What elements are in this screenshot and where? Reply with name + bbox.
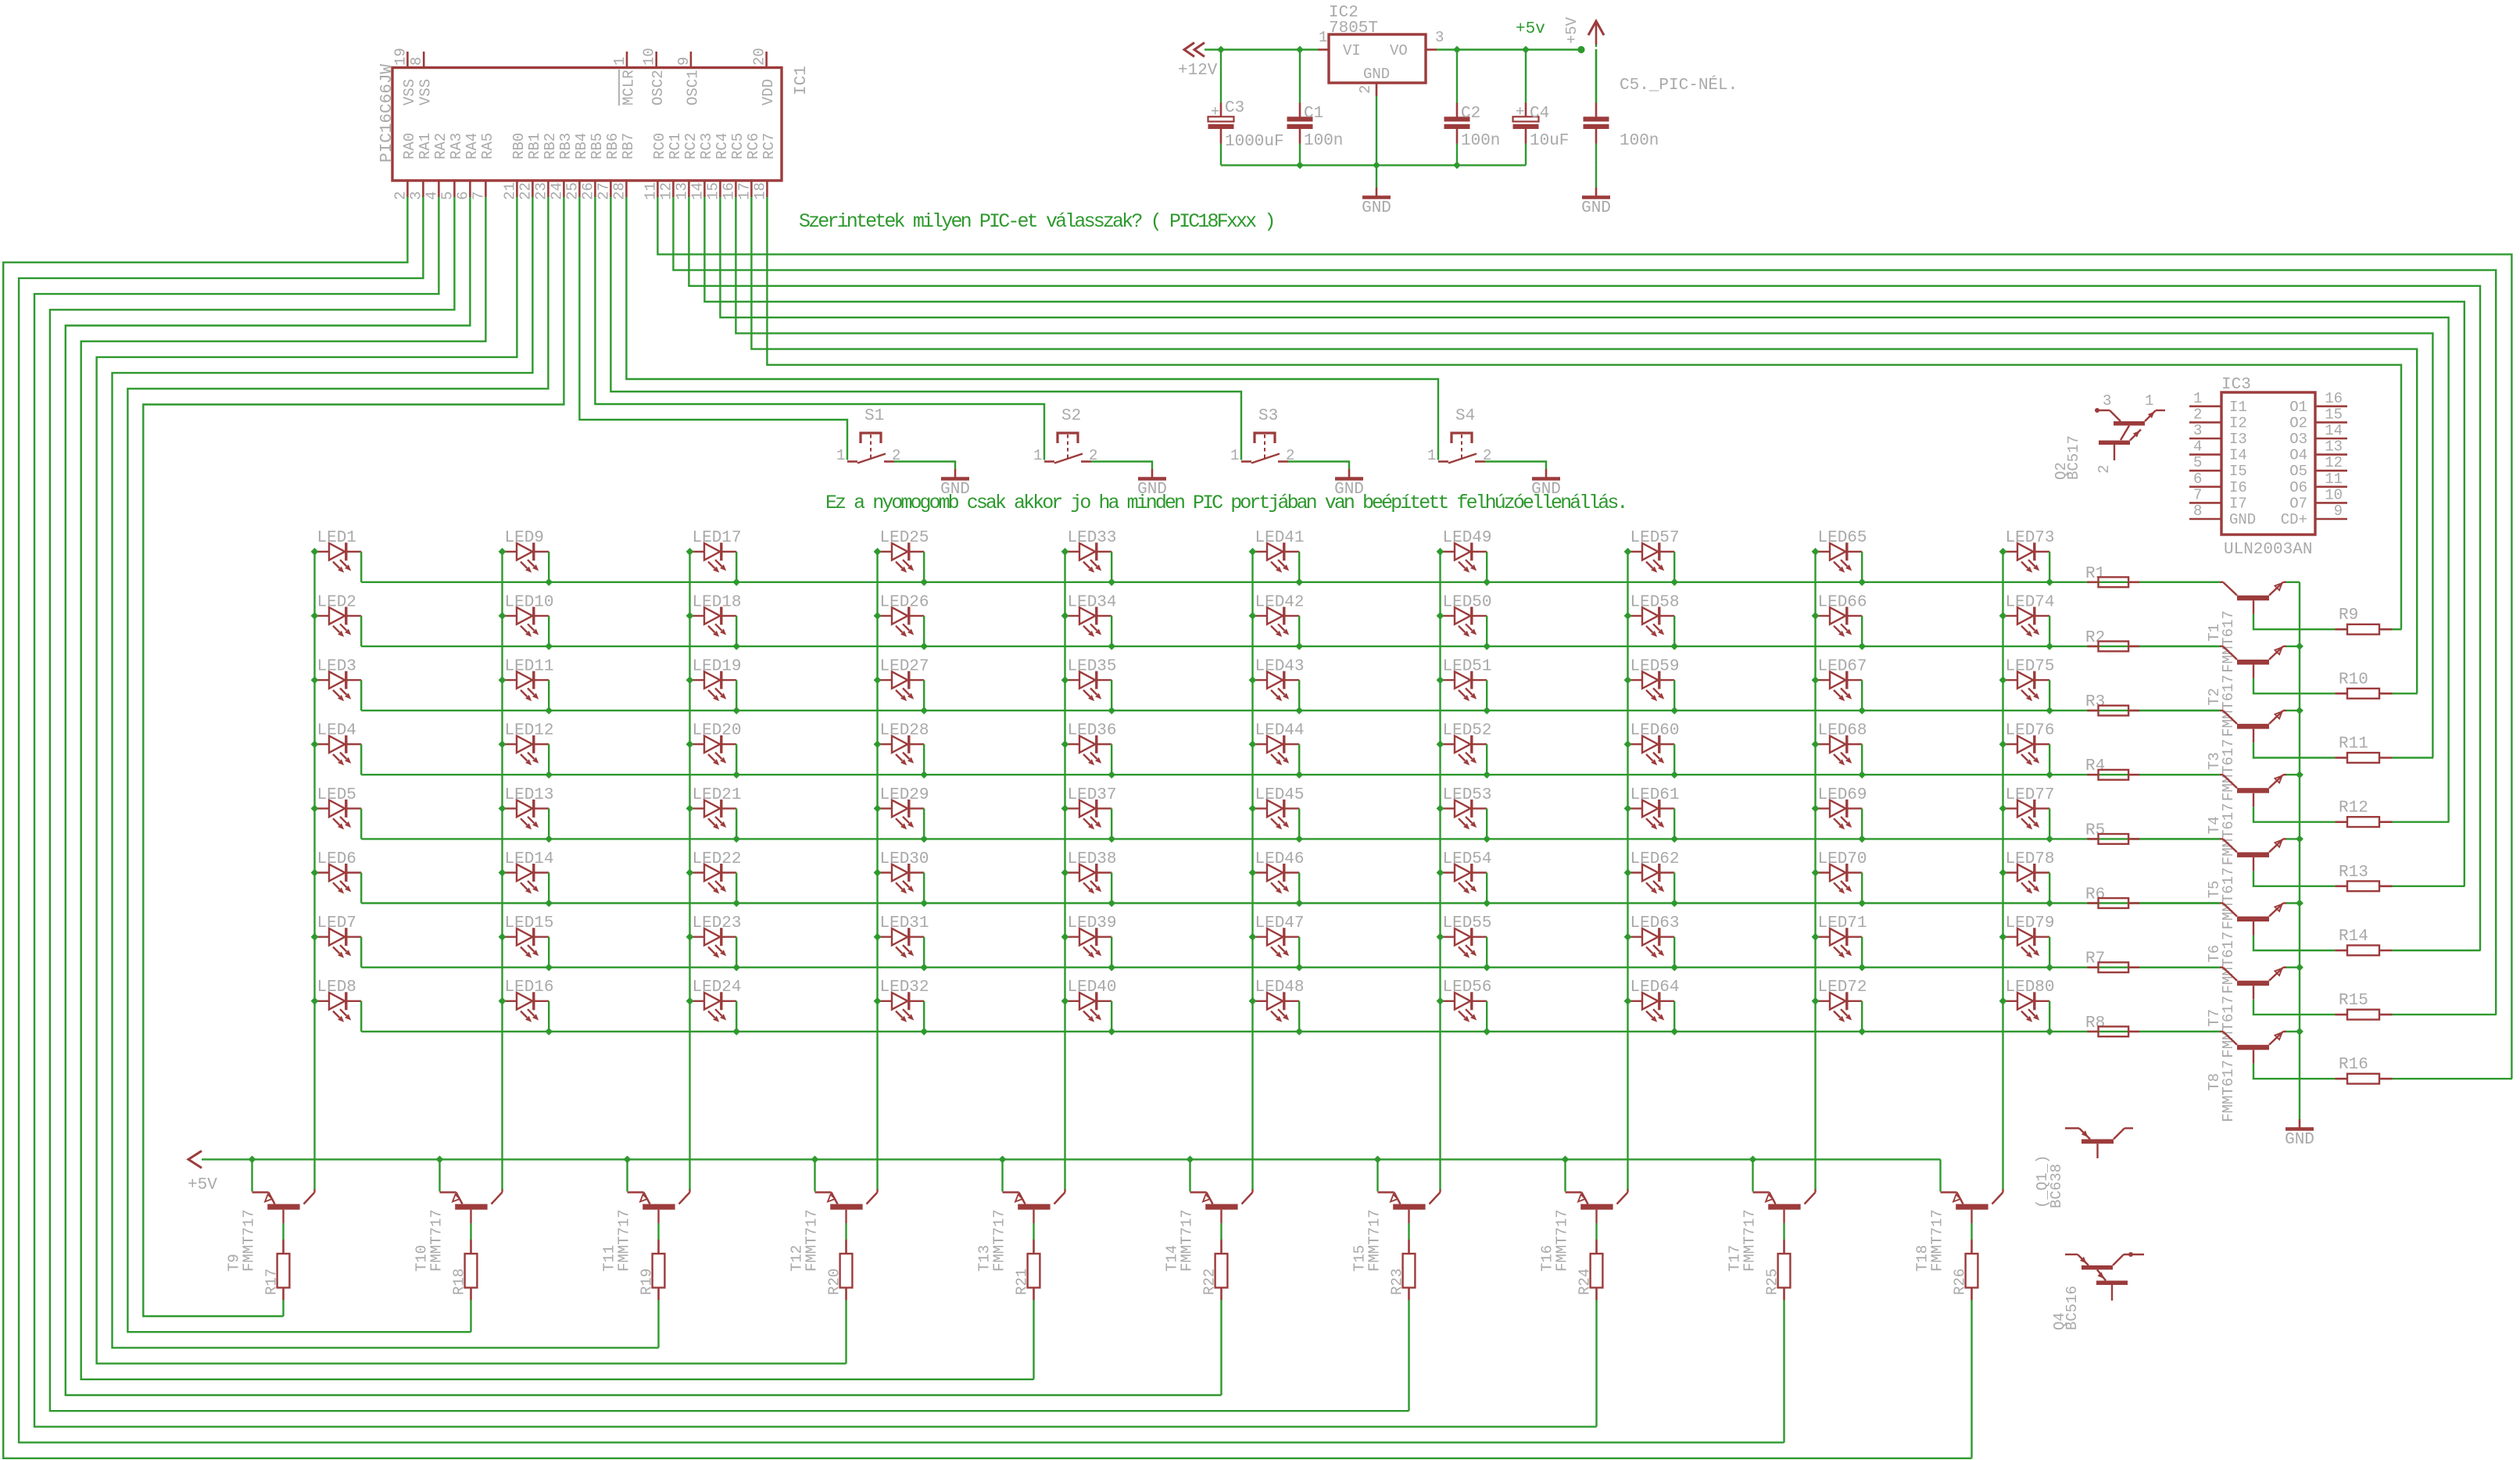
svg-text:+5V: +5V bbox=[1563, 16, 1580, 44]
resistor R23 bbox=[1403, 1254, 1416, 1288]
IC1 pin 28 (RB7) stub bbox=[625, 181, 628, 197]
wire LED48 cathode drop bbox=[1298, 1001, 1300, 1032]
wire R12 to bus vertical bbox=[2393, 821, 2450, 822]
svg-text:LED46: LED46 bbox=[1255, 850, 1305, 868]
svg-text:LED40: LED40 bbox=[1068, 979, 1117, 997]
wire R13 to bus vertical bbox=[2393, 886, 2465, 887]
IC1 pin 15 (RC4) stub bbox=[719, 181, 721, 197]
svg-text:FMMT617: FMMT617 bbox=[2220, 610, 2237, 673]
svg-text:15: 15 bbox=[2325, 406, 2343, 423]
wire LED51 cathode drop bbox=[1486, 680, 1487, 710]
IC3 pin 7 stub bbox=[2189, 502, 2221, 504]
svg-text:I7: I7 bbox=[2229, 495, 2247, 512]
wire LED67 cathode drop bbox=[1861, 680, 1863, 710]
wire LED41 cathode drop bbox=[1298, 552, 1300, 582]
junction LED26 on row bus bbox=[920, 642, 928, 650]
svg-text:RB4: RB4 bbox=[573, 133, 590, 159]
wire LED27 cathode drop bbox=[923, 680, 925, 710]
svg-text:LED52: LED52 bbox=[1443, 722, 1492, 740]
svg-text:LED57: LED57 bbox=[1630, 529, 1680, 547]
svg-text:LED45: LED45 bbox=[1255, 786, 1305, 804]
resistor R16 bbox=[2335, 1078, 2347, 1080]
svg-text:FMMT617: FMMT617 bbox=[2220, 739, 2237, 801]
wire LED row bus 6 bbox=[361, 902, 2220, 904]
IC1 pin 26 (RB5) stub bbox=[594, 181, 596, 197]
IC3 pin 13 stub bbox=[2315, 453, 2347, 456]
svg-text:7: 7 bbox=[2193, 486, 2202, 503]
wire LED12 cathode drop bbox=[548, 744, 549, 775]
IC3 pin 9 stub bbox=[2315, 518, 2347, 521]
wire LED42 cathode drop bbox=[1298, 616, 1300, 646]
capacitor C5 100n bbox=[1595, 50, 1597, 103]
switch S4 actuator bbox=[1452, 433, 1472, 443]
svg-text:S4: S4 bbox=[1455, 407, 1475, 425]
junction LED29 on row bus bbox=[920, 836, 928, 843]
junction LED73 on row bus bbox=[2046, 578, 2053, 586]
junction LED52 on row bus bbox=[1483, 771, 1491, 778]
svg-text:C4: C4 bbox=[1530, 105, 1549, 123]
svg-text:RC0: RC0 bbox=[651, 133, 668, 159]
junction LED13 on row bus bbox=[545, 836, 553, 843]
svg-text:10: 10 bbox=[641, 48, 658, 66]
svg-text:GND: GND bbox=[1334, 481, 1364, 499]
svg-text:LED64: LED64 bbox=[1630, 979, 1680, 997]
junction rail GND drop bbox=[1373, 162, 1380, 170]
junction gnd line row 4 bbox=[2296, 771, 2303, 778]
wire T15 base down bbox=[1408, 1210, 1409, 1223]
wire T7 base to R15 bbox=[2253, 986, 2254, 1000]
wire T6 base to R14 bbox=[2253, 921, 2254, 936]
svg-text:BC517: BC517 bbox=[2065, 435, 2082, 480]
svg-text:O3: O3 bbox=[2289, 431, 2307, 448]
IC1 pin 13 (RC2) stub bbox=[688, 181, 690, 197]
IC1 pin 8 (VSS) stub bbox=[423, 52, 425, 68]
wire RB6 pin27 to S3 bbox=[610, 197, 1241, 460]
svg-text:VO: VO bbox=[1390, 42, 1408, 59]
svg-text:17: 17 bbox=[736, 182, 753, 200]
wire LED22 cathode drop bbox=[736, 873, 737, 904]
svg-text:FMMT617: FMMT617 bbox=[2220, 1060, 2237, 1122]
wire +5V to C5 bbox=[1595, 45, 1597, 103]
svg-text:FMMT717: FMMT717 bbox=[241, 1209, 258, 1272]
wire LED38 cathode drop bbox=[1111, 873, 1112, 904]
svg-text:LED67: LED67 bbox=[1818, 658, 1867, 676]
wire S2 to GND bbox=[1091, 462, 1152, 470]
svg-text:R16: R16 bbox=[2339, 1056, 2368, 1074]
IC2 pin 3 stub bbox=[1426, 48, 1437, 51]
wire T11 base down bbox=[657, 1210, 659, 1223]
wire R7 to T7 collector bbox=[2139, 966, 2220, 968]
svg-text:R14: R14 bbox=[2339, 928, 2368, 946]
svg-text:LED31: LED31 bbox=[880, 914, 929, 932]
svg-text:LED18: LED18 bbox=[693, 593, 742, 611]
svg-text:LED17: LED17 bbox=[693, 529, 742, 547]
svg-text:LED49: LED49 bbox=[1443, 529, 1492, 547]
svg-text:RB1: RB1 bbox=[526, 133, 543, 159]
IC1 pin 14 (RC3) stub bbox=[703, 181, 706, 197]
svg-text:+5V: +5V bbox=[188, 1176, 217, 1194]
wire LED30 cathode drop bbox=[923, 873, 925, 904]
junction LED42 on row bus bbox=[1295, 642, 1303, 650]
IC3 pin 10 stub bbox=[2315, 502, 2347, 504]
wire T3 emitter to gnd line bbox=[2286, 710, 2300, 711]
svg-text:FMMT717: FMMT717 bbox=[1741, 1209, 1759, 1272]
svg-text:9: 9 bbox=[675, 57, 693, 66]
svg-text:5: 5 bbox=[438, 191, 456, 200]
svg-text:LED55: LED55 bbox=[1443, 914, 1492, 932]
IC1 pin 11 (RC0) stub bbox=[657, 181, 659, 197]
wire LED50 cathode drop bbox=[1486, 616, 1487, 646]
junction LED28 on row bus bbox=[920, 771, 928, 778]
svg-text:R1: R1 bbox=[2085, 565, 2105, 583]
svg-text:100n: 100n bbox=[1304, 132, 1343, 150]
wire RC6 pin17 to R10 bbox=[751, 197, 2417, 693]
wire R26 to bundle bbox=[1971, 1301, 1972, 1458]
junction node C2 top bbox=[1453, 46, 1461, 54]
transistor Q2 BC517 bbox=[2095, 408, 2099, 413]
IC1 pin 1 (MCLR) stub bbox=[626, 52, 628, 68]
IC3 pin 6 stub bbox=[2189, 485, 2221, 488]
resistor R22 bbox=[1215, 1254, 1228, 1288]
svg-text:FMMT617: FMMT617 bbox=[2220, 996, 2237, 1058]
transistor T18 FMMT717 bbox=[1939, 1159, 1941, 1191]
wire T4 base to R12 bbox=[2253, 793, 2254, 807]
wire pin to T17 base (left bundle) bbox=[19, 197, 1784, 1443]
svg-text:21: 21 bbox=[501, 182, 518, 200]
svg-text:FMMT717: FMMT717 bbox=[428, 1209, 446, 1272]
junction LED67 on row bus bbox=[1858, 707, 1866, 714]
svg-text:GND: GND bbox=[1363, 66, 1390, 83]
wire LED15 cathode drop bbox=[548, 937, 549, 968]
wire LED column 8 vertical bbox=[1627, 552, 1628, 1190]
svg-text:S1: S1 bbox=[864, 407, 884, 425]
junction LED40 on row bus bbox=[1108, 1028, 1115, 1036]
transistor T17 FMMT717 bbox=[1752, 1159, 1753, 1191]
wire pin to T16 base (left bundle) bbox=[34, 197, 1597, 1426]
svg-text:1: 1 bbox=[1033, 447, 1042, 464]
svg-text:GND: GND bbox=[1581, 199, 1611, 217]
resistor R15 bbox=[2335, 1014, 2347, 1016]
svg-text:10: 10 bbox=[2325, 486, 2343, 503]
junction LED45 on row bus bbox=[1295, 836, 1303, 843]
resistor R21 bbox=[1028, 1254, 1040, 1288]
svg-text:LED56: LED56 bbox=[1443, 979, 1492, 997]
junction LED36 on row bus bbox=[1108, 771, 1115, 778]
wire LED column 6 vertical bbox=[1251, 552, 1253, 1190]
IC1 pin 25 (RB4) stub bbox=[578, 181, 581, 197]
svg-text:LED20: LED20 bbox=[693, 722, 742, 740]
svg-text:LED38: LED38 bbox=[1068, 850, 1117, 868]
svg-text:11: 11 bbox=[642, 182, 659, 200]
svg-text:100n: 100n bbox=[1461, 132, 1500, 150]
ground GND (C5) bbox=[1595, 188, 1598, 196]
svg-text:RB3: RB3 bbox=[557, 133, 575, 159]
junction LED59 on row bus bbox=[1670, 707, 1678, 714]
junction LED60 on row bus bbox=[1670, 771, 1678, 778]
wire T9 base down bbox=[282, 1210, 284, 1223]
svg-text:13: 13 bbox=[2325, 438, 2343, 456]
net end dot +5v bbox=[1577, 46, 1584, 53]
junction LED14 on row bus bbox=[545, 900, 553, 907]
wire LED77 cathode drop bbox=[2049, 808, 2050, 839]
junction LED78 on row bus bbox=[2046, 900, 2053, 907]
wire LED79 cathode drop bbox=[2049, 937, 2050, 968]
svg-text:+: + bbox=[1516, 103, 1524, 120]
svg-text:12: 12 bbox=[657, 182, 675, 200]
svg-text:6: 6 bbox=[2193, 471, 2202, 488]
wire LED80 cathode drop bbox=[2049, 1001, 2050, 1032]
svg-text:LED35: LED35 bbox=[1068, 658, 1117, 676]
wire LED19 cathode drop bbox=[736, 680, 737, 710]
svg-text:LED74: LED74 bbox=[2006, 593, 2055, 611]
transistor T9 FMMT717 bbox=[251, 1159, 252, 1191]
switch S1 actuator bbox=[861, 433, 881, 443]
svg-text:RC7: RC7 bbox=[761, 133, 778, 159]
wire LED row bus 7 bbox=[361, 966, 2220, 968]
IC1 pin 6 (RA4) stub bbox=[469, 181, 471, 197]
svg-text:28: 28 bbox=[610, 182, 628, 200]
junction node C4 top bbox=[1522, 46, 1530, 54]
junction gnd line row 2 bbox=[2296, 642, 2303, 650]
wire LED2 cathode drop bbox=[360, 616, 362, 646]
svg-text:GND: GND bbox=[2285, 1131, 2314, 1149]
wire LED row bus 3 bbox=[361, 710, 2220, 711]
switch S2 actuator bbox=[1058, 433, 1078, 443]
resistor R10 bbox=[2335, 692, 2347, 695]
wire LED54 cathode drop bbox=[1486, 873, 1487, 904]
svg-text:RC4: RC4 bbox=[714, 133, 731, 159]
svg-text:LED13: LED13 bbox=[505, 786, 554, 804]
svg-text:LED30: LED30 bbox=[880, 850, 929, 868]
svg-text:OSC2: OSC2 bbox=[650, 70, 667, 106]
svg-text:LED28: LED28 bbox=[880, 722, 929, 740]
svg-text:LED36: LED36 bbox=[1068, 722, 1117, 740]
svg-text:LED9: LED9 bbox=[505, 529, 544, 547]
junction gnd line row 3 bbox=[2296, 707, 2303, 714]
wire pin to T12 base (left bundle) bbox=[97, 197, 847, 1364]
wire pin to T9 base (left bundle) bbox=[143, 197, 564, 1316]
transistor T4 FMMT617 bbox=[2220, 774, 2223, 775]
transistor T6 FMMT617 bbox=[2220, 902, 2223, 904]
svg-text:OSC1: OSC1 bbox=[684, 70, 701, 106]
IC1 pin 19 (VSS) stub bbox=[406, 52, 409, 68]
resistor R2 bbox=[2087, 646, 2098, 648]
transistor T7 FMMT617 bbox=[2220, 966, 2223, 968]
junction LED46 on row bus bbox=[1295, 900, 1303, 907]
IC1 pin 20 (VDD) stub bbox=[765, 52, 768, 68]
IC1 pin 23 (RB2) stub bbox=[547, 181, 549, 197]
wire LED6 cathode drop bbox=[360, 873, 362, 904]
junction +5V rail T15 bbox=[1374, 1156, 1382, 1164]
svg-text:S2: S2 bbox=[1061, 407, 1081, 425]
svg-text:100n: 100n bbox=[1620, 132, 1659, 150]
resistor R11 bbox=[2335, 757, 2347, 759]
wire LED column 2 vertical bbox=[501, 552, 503, 1190]
junction LED44 on row bus bbox=[1295, 771, 1303, 778]
IC1 pin 4 (RA2) stub bbox=[438, 181, 440, 197]
wire LED36 cathode drop bbox=[1111, 744, 1112, 775]
wire LED34 cathode drop bbox=[1111, 616, 1112, 646]
junction LED79 on row bus bbox=[2046, 964, 2053, 972]
junction LED62 on row bus bbox=[1670, 900, 1678, 907]
IC1 pin 9 (OSC1) stub bbox=[690, 52, 693, 68]
IC3 pin 3 stub bbox=[2189, 438, 2221, 440]
svg-text:PIC16C66JW: PIC16C66JW bbox=[378, 64, 396, 163]
svg-text:+12V: +12V bbox=[1178, 62, 1218, 80]
svg-text:R4: R4 bbox=[2085, 757, 2105, 775]
wire LED59 cathode drop bbox=[1673, 680, 1675, 710]
wire T5 emitter to gnd line bbox=[2286, 838, 2300, 839]
wire LED56 cathode drop bbox=[1486, 1001, 1487, 1032]
wire RC1 pin12 to R15 bbox=[673, 197, 2496, 1014]
svg-text:LED69: LED69 bbox=[1818, 786, 1867, 804]
wire LED24 cathode drop bbox=[736, 1001, 737, 1032]
junction LED25 on row bus bbox=[920, 578, 928, 586]
svg-text:O2: O2 bbox=[2289, 414, 2307, 431]
svg-text:1: 1 bbox=[2145, 392, 2153, 410]
svg-text:R5: R5 bbox=[2085, 821, 2105, 839]
svg-text:LED37: LED37 bbox=[1068, 786, 1117, 804]
svg-text:R12: R12 bbox=[2339, 800, 2368, 818]
svg-text:GND: GND bbox=[1531, 481, 1561, 499]
resistor R4 bbox=[2087, 774, 2098, 776]
svg-text:FMMT617: FMMT617 bbox=[2220, 868, 2237, 930]
svg-text:RA5: RA5 bbox=[479, 133, 496, 159]
wire RC0 pin11 to R16 bbox=[657, 197, 2511, 1079]
svg-text:LED62: LED62 bbox=[1630, 850, 1680, 868]
junction +5V rail T14 bbox=[1187, 1156, 1194, 1164]
IC3 pin 4 stub bbox=[2189, 453, 2221, 456]
wire RB4 pin25 to S1 bbox=[579, 197, 847, 460]
IC1 pin 5 (RA3) stub bbox=[453, 181, 456, 197]
junction LED12 on row bus bbox=[545, 771, 553, 778]
svg-text:GND: GND bbox=[1137, 481, 1167, 499]
switch S3 actuator bbox=[1255, 433, 1275, 443]
transistor T8 FMMT617 bbox=[2220, 1031, 2223, 1032]
wire LED43 cathode drop bbox=[1298, 680, 1300, 710]
junction LED64 on row bus bbox=[1670, 1028, 1678, 1036]
wire LED35 cathode drop bbox=[1111, 680, 1112, 710]
svg-text:LED2: LED2 bbox=[317, 593, 356, 611]
junction gnd line row 7 bbox=[2296, 964, 2303, 972]
wire RC2 pin13 to R14 bbox=[689, 197, 2480, 950]
svg-text:ULN2003AN: ULN2003AN bbox=[2224, 541, 2312, 559]
wire LED3 cathode drop bbox=[360, 680, 362, 710]
wire LED65 cathode drop bbox=[1861, 552, 1863, 582]
wire LED61 cathode drop bbox=[1673, 808, 1675, 839]
wire pin to T15 base (left bundle) bbox=[50, 197, 1409, 1411]
wire LED16 cathode drop bbox=[548, 1001, 549, 1032]
svg-text:7805T: 7805T bbox=[1329, 20, 1378, 38]
svg-text:LED44: LED44 bbox=[1255, 722, 1305, 740]
wire R9 to bus vertical bbox=[2393, 628, 2402, 630]
IC1 pin 16 (RC5) stub bbox=[735, 181, 737, 197]
wire R11 to bus vertical bbox=[2393, 757, 2434, 758]
svg-text:LED43: LED43 bbox=[1255, 658, 1305, 676]
wire LED11 cathode drop bbox=[548, 680, 549, 710]
wire T6 emitter to gnd line bbox=[2286, 902, 2300, 904]
wire LED row bus 2 bbox=[361, 646, 2220, 647]
svg-text:LED15: LED15 bbox=[505, 914, 554, 932]
wire R18 to bundle bbox=[470, 1301, 471, 1333]
junction +5V rail T13 bbox=[999, 1156, 1007, 1164]
svg-text:7: 7 bbox=[470, 191, 487, 200]
junction LED57 on row bus bbox=[1670, 578, 1678, 586]
wire LED9 cathode drop bbox=[548, 552, 549, 582]
wire LED13 cathode drop bbox=[548, 808, 549, 839]
wire RB5 pin26 to S2 bbox=[595, 197, 1044, 460]
junction LED71 on row bus bbox=[1858, 964, 1866, 972]
svg-text:LED72: LED72 bbox=[1818, 979, 1867, 997]
svg-text:3: 3 bbox=[1435, 29, 1444, 46]
wire LED78 cathode drop bbox=[2049, 873, 2050, 904]
svg-text:RB6: RB6 bbox=[604, 133, 621, 159]
svg-text:GND: GND bbox=[2229, 511, 2256, 528]
wire LED8 cathode drop bbox=[360, 1001, 362, 1032]
wire T18 base down bbox=[1971, 1210, 1972, 1223]
transistor Q1 BC638 bbox=[2065, 1127, 2079, 1129]
svg-text:LED19: LED19 bbox=[693, 658, 742, 676]
svg-text:C5._PIC-NÉL.: C5._PIC-NÉL. bbox=[1620, 76, 1738, 95]
junction LED66 on row bus bbox=[1858, 642, 1866, 650]
wire pin to T18 base (left bundle) bbox=[3, 197, 1971, 1458]
svg-text:RC6: RC6 bbox=[745, 133, 762, 159]
wire LED37 cathode drop bbox=[1111, 808, 1112, 839]
svg-text:LED34: LED34 bbox=[1068, 593, 1117, 611]
svg-text:18: 18 bbox=[751, 182, 768, 200]
wire T14 base down bbox=[1220, 1210, 1222, 1223]
svg-text:FMMT617: FMMT617 bbox=[2220, 803, 2237, 865]
junction LED37 on row bus bbox=[1108, 836, 1115, 843]
IC3 pin 1 stub bbox=[2189, 405, 2221, 407]
svg-text:GND: GND bbox=[940, 481, 970, 499]
svg-text:LED29: LED29 bbox=[880, 786, 929, 804]
wire R24 to bundle bbox=[1595, 1301, 1597, 1427]
transistor T10 FMMT717 bbox=[438, 1159, 440, 1191]
junction +5V rail T9 bbox=[249, 1156, 256, 1164]
resistor R14 bbox=[2335, 950, 2347, 952]
IC1 pin 2 (RA0) stub bbox=[406, 181, 409, 197]
wire T8 emitter to gnd line bbox=[2286, 1031, 2300, 1032]
junction rail C2 bbox=[1453, 162, 1461, 170]
IC1 pin 27 (RB6) stub bbox=[610, 181, 612, 197]
resistor R6 bbox=[2087, 902, 2098, 904]
IC3 pin 12 stub bbox=[2315, 470, 2347, 472]
transistor T2 FMMT617 bbox=[2220, 646, 2223, 647]
resistor R18 bbox=[465, 1254, 478, 1288]
junction LED23 on row bus bbox=[732, 964, 740, 972]
wire T16 base down bbox=[1595, 1210, 1597, 1223]
IC3 pin 11 stub bbox=[2315, 485, 2347, 488]
svg-text:16: 16 bbox=[720, 182, 737, 200]
junction +5V rail T11 bbox=[624, 1156, 632, 1164]
wire S3 to GND bbox=[1288, 462, 1349, 470]
svg-text:LED76: LED76 bbox=[2006, 722, 2055, 740]
svg-text:LED14: LED14 bbox=[505, 850, 554, 868]
junction +5V rail T16 bbox=[1562, 1156, 1570, 1164]
IC3 pin 14 stub bbox=[2315, 438, 2347, 440]
svg-text:1000uF: 1000uF bbox=[1225, 133, 1284, 151]
junction LED72 on row bus bbox=[1858, 1028, 1866, 1036]
svg-text:GND: GND bbox=[1362, 199, 1391, 217]
wire pin to T10 base (left bundle) bbox=[127, 197, 548, 1332]
svg-text:LED60: LED60 bbox=[1630, 722, 1680, 740]
svg-text:I6: I6 bbox=[2229, 479, 2247, 496]
svg-text:RB5: RB5 bbox=[589, 133, 606, 159]
+12V input chevron bbox=[1184, 43, 1205, 57]
wire LED32 cathode drop bbox=[923, 1001, 925, 1032]
svg-text:13: 13 bbox=[673, 182, 690, 200]
